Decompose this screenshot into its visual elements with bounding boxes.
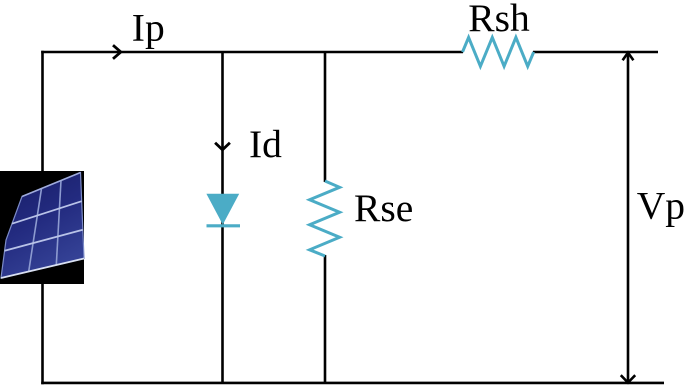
svg-text:Rsh: Rsh bbox=[468, 0, 530, 40]
diode D (teal, pointing down) bbox=[206, 194, 240, 226]
arrow Ip current direction on top rail bbox=[113, 45, 121, 59]
wire: Rse branch lower segment bbox=[324, 255, 327, 383]
Vp measurement arrow (double headed vertical) bbox=[621, 53, 635, 383]
svg-text:Ip: Ip bbox=[132, 5, 165, 49]
panel top edge line bbox=[22, 173, 81, 197]
svg-text:Rse: Rse bbox=[354, 186, 413, 230]
wire: top rail right segment bbox=[533, 51, 658, 54]
arrow Id current direction on diode branch bbox=[215, 143, 230, 150]
wire: top rail left segment bbox=[41, 51, 463, 54]
wire: diode branch vertical bbox=[221, 52, 224, 383]
panel bottom highlight edge bbox=[1, 259, 84, 279]
resistor Rsh (horizontal zigzag on top rail) bbox=[463, 37, 534, 66]
svg-text:Vp: Vp bbox=[637, 183, 685, 227]
solar panel picture (photovoltaic source) bbox=[0, 171, 84, 284]
svg-text:Id: Id bbox=[249, 122, 282, 166]
wire: left vertical branch bbox=[41, 51, 44, 385]
wire: bottom rail bbox=[41, 382, 664, 385]
resistor Rse (vertical zigzag) bbox=[310, 181, 340, 256]
wire: Rse branch upper segment bbox=[324, 52, 327, 182]
panel grid lines bbox=[29, 189, 42, 272]
